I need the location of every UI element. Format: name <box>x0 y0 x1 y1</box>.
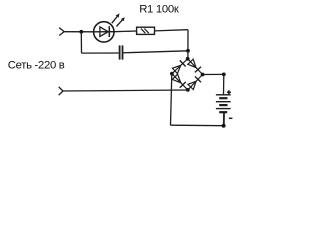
terminal X1 (mains input top) <box>59 28 64 32</box>
diode D-left-bottom (anode left, cathode bottom) <box>172 74 181 83</box>
node bridge left vertex <box>170 72 174 76</box>
wire: terminal to LED <box>64 31 94 33</box>
wire: junction down to capacitor branch <box>80 32 82 53</box>
node corner above battery <box>222 73 226 77</box>
node bridge bottom vertex <box>186 88 190 92</box>
svg-text:Сеть -220 в: Сеть -220 в <box>8 60 65 72</box>
wire: R1 to bridge top <box>155 30 189 31</box>
LED HL1 <box>94 13 125 42</box>
node bridge right vertex <box>201 73 205 77</box>
diode D-left-top (anode left, cathode top) <box>172 65 180 73</box>
wire: bridge - output down <box>171 74 172 125</box>
diode bridge VD1 <box>170 57 205 92</box>
svg-text:R1 100к: R1 100к <box>139 4 179 16</box>
node junction (capacitor joins bridge input) <box>186 49 190 53</box>
terminal X2 (mains input bottom) <box>59 87 63 91</box>
wire: capacitor to bridge input <box>123 51 188 53</box>
node junction (top wire / capacitor branch) <box>79 30 83 34</box>
wire: bottom return to battery minus <box>171 124 224 127</box>
node battery minus connection <box>222 124 226 128</box>
wire: bridge + output to battery <box>203 73 224 75</box>
wire: LED to R1 <box>114 30 137 33</box>
battery GB1 <box>216 90 233 125</box>
wire: terminal to bridge bottom vertex <box>63 90 188 91</box>
battery minus sign <box>229 117 233 119</box>
node bridge top vertex <box>186 57 190 61</box>
diode D-top-right (anode top, cathode right) <box>188 59 196 67</box>
battery plus sign <box>227 91 231 93</box>
wire: junction to capacitor <box>82 52 119 54</box>
diode D-bottom-right (anode bottom, cathode right) <box>188 81 196 89</box>
resistor R1 <box>137 27 155 34</box>
capacitor C1 <box>120 45 123 59</box>
